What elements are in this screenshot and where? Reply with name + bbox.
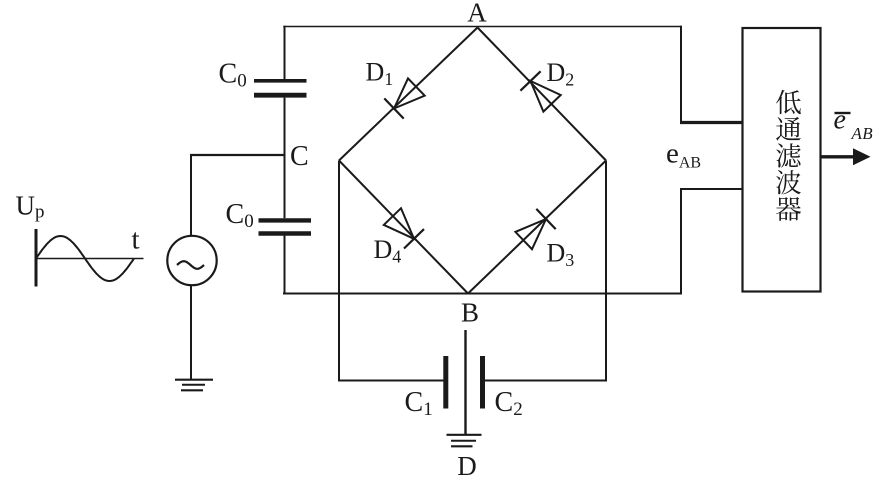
diode D3 <box>515 209 555 249</box>
wire left vertical upper (top bus to C0 upper) <box>284 26 286 80</box>
svg-text:e: e <box>834 105 846 136</box>
diode D2 <box>520 71 560 111</box>
wire top bus A <box>283 26 682 28</box>
capacitor C0 lower <box>259 220 312 233</box>
wire lead to filter box (bottom) <box>680 188 743 190</box>
wire bridge right vertical <box>605 161 607 382</box>
bridge arm A to right vertex <box>478 28 607 161</box>
source AC generator circle <box>167 236 216 285</box>
diode D4 <box>384 208 424 248</box>
low pass filter box <box>743 28 821 292</box>
Up waveform axis vertical <box>35 229 38 287</box>
svg-text:B: B <box>461 298 479 328</box>
label e-bar AB output <box>834 105 874 144</box>
wire node C horizontal to source <box>190 154 285 156</box>
diode D1 <box>384 78 424 118</box>
svg-text:C: C <box>290 141 309 172</box>
capacitor C1 left plate <box>443 356 448 409</box>
wire source bottom lead <box>190 285 192 379</box>
wire right vertical upper <box>680 26 682 123</box>
capacitor C0 upper <box>254 81 307 95</box>
bridge arm A to left vertex <box>339 28 478 161</box>
wire thick lead to filter box (top) <box>680 121 743 124</box>
svg-text:AB: AB <box>851 124 874 143</box>
bridge arm left vertex to B <box>339 161 468 294</box>
capacitor C2 right plate <box>480 356 485 409</box>
wire left vertical middle (C0 upper to C0 lower, through node C) <box>284 98 286 219</box>
svg-text:A: A <box>467 0 487 28</box>
Up waveform sine <box>36 236 134 281</box>
wire source top lead <box>190 154 192 236</box>
svg-text:t: t <box>132 224 140 256</box>
svg-text:D: D <box>457 451 477 481</box>
shared center plate / node D line <box>464 330 466 435</box>
Up waveform axis horizontal <box>36 258 144 260</box>
ground at node D <box>447 435 482 447</box>
wire bottom-left horizontal to C1 <box>338 380 444 382</box>
wire left vertical lower (C0 lower to bottom bus) <box>284 236 286 295</box>
filter box text 低通滤波器 <box>776 90 801 221</box>
output arrow shaft <box>822 155 857 158</box>
wire bottom bus <box>283 293 682 295</box>
wire bottom-right horizontal from C2 <box>485 380 607 382</box>
output arrow head <box>853 148 871 165</box>
ground under source <box>175 380 213 391</box>
wire right vertical lower <box>680 189 682 295</box>
wire bridge left vertical <box>338 161 340 382</box>
bridge arm B to right vertex <box>468 161 606 294</box>
source tilde symbol <box>177 261 204 269</box>
